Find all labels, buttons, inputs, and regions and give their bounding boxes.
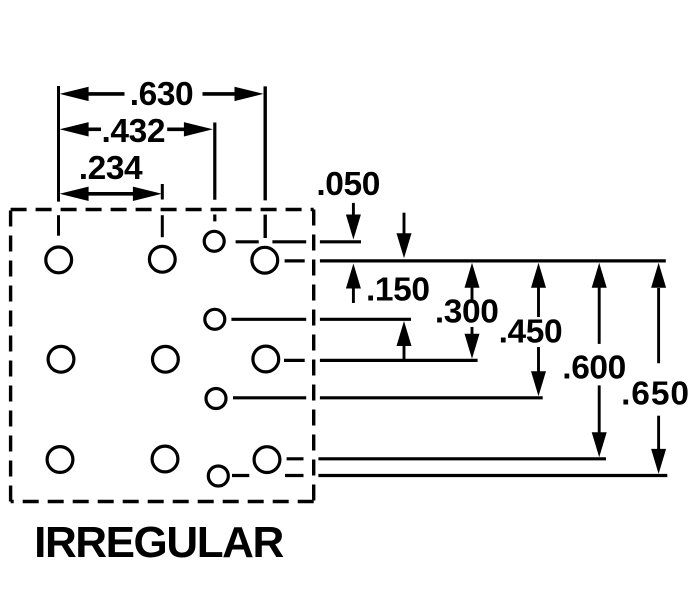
extension line for .432 at small hole column xyxy=(213,123,216,222)
dimension .450 upper arrow (points up to datum line) xyxy=(537,287,540,317)
hole S2 (small, second) xyxy=(205,309,225,329)
leader line from hole C3 (.600) xyxy=(287,457,606,460)
hole C1 (large, row 3 col 1) xyxy=(47,447,73,473)
leader line from hole S4 (.650) xyxy=(232,474,667,477)
hole S1 (small, top) xyxy=(204,231,224,251)
dimension line .630 xyxy=(88,92,236,96)
hole C2 (large, row 3 col 2) xyxy=(152,446,178,472)
arrowhead .432 left xyxy=(60,122,89,136)
svg-text:.450: .450 xyxy=(499,314,563,351)
dimension .600 lower arrow (points down to C3 line) xyxy=(592,432,607,457)
dimension line .234 xyxy=(86,192,135,196)
arrowhead .630 left xyxy=(60,87,89,101)
dimension .150 upper arrow (points down to datum line) xyxy=(403,213,406,234)
leader line from hole A3 (datum line) xyxy=(285,259,666,262)
arrowhead .630 right xyxy=(235,87,264,101)
leader line from hole S3 (.450) xyxy=(233,396,543,399)
dimension .050 upper arrow (points down to S1 line) xyxy=(352,203,355,216)
leader line from hole S2 (.150) xyxy=(231,318,411,321)
hole A2 (large, row 1 col 2) xyxy=(149,246,175,272)
hole S4 (small, bottom) xyxy=(208,466,228,486)
extension line tick for .234 at col 2 xyxy=(161,184,164,237)
hole B3 (large, row 2 col 3) xyxy=(253,346,279,372)
svg-text:.234: .234 xyxy=(79,150,143,187)
svg-text:.630: .630 xyxy=(130,76,194,113)
hole C3 (large, row 3 col 3) xyxy=(254,447,280,473)
svg-text:.432: .432 xyxy=(101,113,165,150)
extension line for .630 at col 3 xyxy=(264,86,267,238)
hole B1 (large, row 2 col 1) xyxy=(48,346,74,372)
svg-text:IRREGULAR: IRREGULAR xyxy=(34,518,283,567)
arrowhead .234 left xyxy=(60,187,89,201)
svg-text:.300: .300 xyxy=(435,294,499,331)
leader line from hole S1 (datum for .050) xyxy=(236,240,361,243)
extension line for col 1 holes xyxy=(57,86,60,236)
dimension .050 lower arrow (points up to datum line) xyxy=(352,288,355,303)
dimension .300 lower arrow (points down to B3 line) xyxy=(471,327,474,335)
dimension .600 upper arrow (points up to datum line) xyxy=(598,287,601,433)
svg-text:.600: .600 xyxy=(562,350,626,387)
hole A1 (large, row 1 col 1) xyxy=(46,247,72,273)
arrowhead .234 right xyxy=(133,187,162,201)
dimension .650 lower arrow (points down to S4 line) xyxy=(651,449,666,474)
svg-text:.650: .650 xyxy=(621,376,690,413)
svg-text:.150: .150 xyxy=(366,272,430,309)
arrowhead .432 right xyxy=(184,122,213,136)
hole S3 (small, third) xyxy=(206,389,226,409)
dimension .450 lower arrow (points down to S3 line) xyxy=(537,347,540,372)
dimension line .432 xyxy=(86,128,185,132)
leader line from hole B3 (.300) xyxy=(284,359,478,362)
dimension .650 upper arrow (points up to datum line) xyxy=(657,288,660,450)
dimension .300 upper arrow (points up to datum line) xyxy=(471,287,474,300)
dashed outline of irregular hole-pattern part xyxy=(11,210,314,502)
hole B2 (large, row 2 col 2) xyxy=(153,346,179,372)
svg-text:.050: .050 xyxy=(316,166,380,203)
hole A3 (large, row 1 col 3) xyxy=(252,247,278,273)
dimension .150 lower arrow (points up to S2 line) xyxy=(403,345,406,360)
